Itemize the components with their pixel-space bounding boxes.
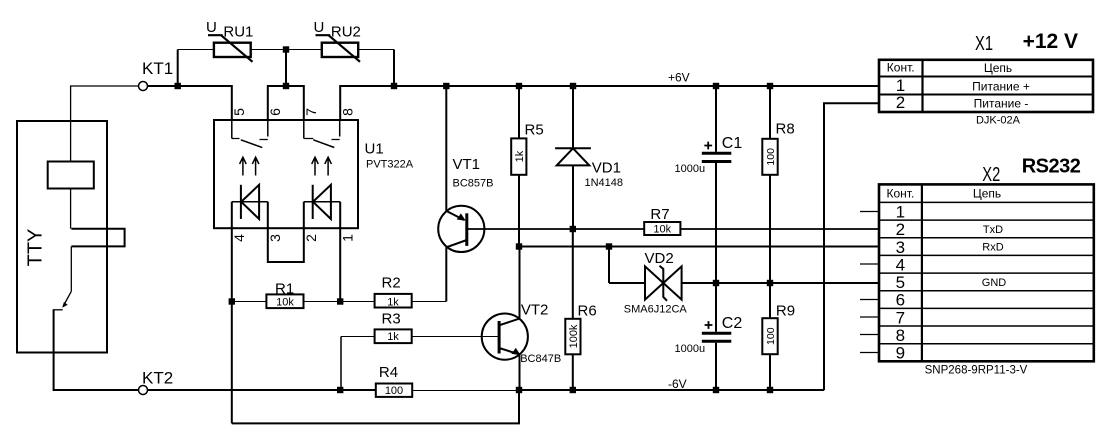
- svg-text:3: 3: [896, 238, 905, 257]
- node GND C1C2: [713, 280, 719, 286]
- svg-text:2: 2: [896, 220, 905, 239]
- svg-text:Цепь: Цепь: [984, 61, 1012, 75]
- wire X2 stub pin8: [860, 334, 879, 336]
- transistor VT2: [482, 314, 528, 360]
- svg-text:C1: C1: [722, 135, 743, 152]
- node rail R5: [516, 83, 522, 89]
- node R3 KT2 junction: [337, 387, 343, 393]
- svg-text:6: 6: [896, 291, 905, 310]
- node rail RU2: [391, 83, 397, 89]
- svg-text:8: 8: [339, 108, 355, 116]
- wire pin4 lead down: [231, 228, 233, 423]
- svg-text:1000u: 1000u: [675, 343, 706, 355]
- svg-text:5: 5: [231, 108, 247, 116]
- svg-text:X2: X2: [982, 164, 1000, 186]
- node rail R8: [767, 83, 773, 89]
- svg-text:R6: R6: [578, 303, 597, 320]
- wire RxD row: [519, 246, 879, 248]
- resistor R7: [644, 222, 680, 235]
- svg-text:100: 100: [385, 385, 403, 397]
- resistor R8: [769, 86, 771, 283]
- svg-text:VT1: VT1: [453, 156, 481, 173]
- svg-text:RS232: RS232: [1022, 155, 1081, 177]
- wire X2 stub pin6: [860, 299, 879, 301]
- svg-text:Питание +: Питание +: [972, 79, 1030, 93]
- svg-text:1: 1: [339, 234, 355, 242]
- svg-text:2: 2: [896, 93, 905, 112]
- resistor R2: [340, 301, 446, 303]
- wire mid junction down: [285, 50, 287, 87]
- wire VT1 base row: [467, 228, 644, 230]
- svg-text:KT1: KT1: [142, 59, 173, 78]
- svg-text:4: 4: [231, 234, 247, 242]
- svg-text:TxD: TxD: [983, 224, 1003, 236]
- svg-text:4: 4: [896, 256, 905, 275]
- svg-text:R8: R8: [776, 121, 795, 138]
- svg-text:PVT322A: PVT322A: [366, 158, 414, 170]
- svg-text:C2: C2: [722, 315, 743, 332]
- svg-text:SMA6J12CA: SMA6J12CA: [624, 304, 688, 316]
- U1 photoswitch channel 2: [304, 120, 340, 139]
- svg-text:VD2: VD2: [645, 250, 674, 267]
- svg-text:1k: 1k: [387, 297, 399, 309]
- svg-text:+6V: +6V: [668, 71, 690, 85]
- svg-text:Конт.: Конт.: [887, 186, 915, 200]
- svg-text:6: 6: [267, 108, 283, 116]
- wire RU2 right lead: [358, 49, 394, 51]
- svg-text:1N4148: 1N4148: [585, 177, 624, 189]
- wire +6V rail: [340, 86, 879, 120]
- TVS diode VD2: [608, 247, 610, 284]
- svg-text:2: 2: [303, 234, 319, 242]
- wire junction up to RU1: [177, 50, 179, 87]
- TTY switch fixed contact: [53, 309, 63, 311]
- svg-text:VT2: VT2: [521, 302, 549, 319]
- U1 LED arrows channel 1: [240, 157, 247, 175]
- wire pin1 lead down: [339, 228, 341, 301]
- svg-text:R2: R2: [382, 275, 401, 292]
- node bridge junction: [283, 83, 289, 89]
- svg-text:RU1: RU1: [223, 24, 253, 41]
- node -6V R9: [767, 387, 773, 393]
- U1 photoswitch channel 1: [232, 120, 268, 139]
- wire KT2 row: [148, 389, 376, 391]
- svg-text:-6V: -6V: [668, 377, 687, 391]
- node rail VD1: [570, 83, 576, 89]
- svg-text:X1: X1: [975, 33, 993, 55]
- svg-text:U: U: [206, 19, 217, 36]
- wire pins 3-2 loop: [268, 228, 304, 262]
- wire X2 stub pin7: [860, 316, 879, 318]
- svg-text:VD1: VD1: [592, 160, 621, 177]
- wire bottom loop: [232, 390, 519, 423]
- U1 LED channel 1: [232, 202, 268, 228]
- svg-text:Питание -: Питание -: [974, 97, 1029, 111]
- svg-text:5: 5: [896, 273, 905, 292]
- node -6V R6: [570, 387, 576, 393]
- svg-text:R5: R5: [525, 122, 544, 139]
- wire GND row: [682, 282, 879, 284]
- svg-text:TTY: TTY: [25, 229, 47, 267]
- wire TTY bottom to KT2: [54, 310, 139, 390]
- TTY coil: [48, 162, 94, 189]
- svg-text:+12 V: +12 V: [1023, 30, 1078, 53]
- wire X2 stub pin9: [860, 352, 879, 354]
- node RxD VT2 collector: [516, 243, 522, 249]
- optocoupler U1 box: [214, 120, 358, 228]
- resistor R4: [376, 384, 412, 397]
- svg-text:GND: GND: [982, 277, 1007, 289]
- svg-text:BC847B: BC847B: [520, 353, 561, 365]
- wire X2 stub pin4: [860, 263, 879, 265]
- svg-text:R9: R9: [776, 303, 795, 320]
- resistor R6: [572, 229, 574, 390]
- svg-text:R7: R7: [650, 206, 669, 223]
- wire RU2 down to rail: [393, 50, 395, 87]
- wire tab to switch: [70, 246, 72, 291]
- svg-text:100: 100: [765, 148, 777, 166]
- svg-text:100: 100: [765, 327, 777, 345]
- wire rail KT1 to pin5: [148, 86, 232, 120]
- terminal KT1: [139, 82, 148, 91]
- svg-text:1000u: 1000u: [675, 163, 706, 175]
- capacitor C1: [715, 86, 717, 283]
- wire KT1 to junction: [148, 85, 178, 87]
- node mid varistor junction: [283, 46, 289, 52]
- U1 LED channel 2: [304, 202, 340, 228]
- svg-text:9: 9: [896, 344, 905, 363]
- svg-text:7: 7: [896, 308, 905, 327]
- varistor RU1: [214, 43, 251, 57]
- svg-text:Конт.: Конт.: [887, 61, 915, 75]
- svg-text:RxD: RxD: [982, 242, 1003, 254]
- wire X2 stub pin1: [860, 211, 879, 213]
- svg-text:R4: R4: [379, 364, 398, 381]
- node GND R8R9: [767, 280, 773, 286]
- node RxD VD2: [606, 243, 612, 249]
- svg-text:SNP268-9RP11-3-V: SNP268-9RP11-3-V: [925, 364, 1028, 376]
- terminal KT2: [139, 386, 148, 395]
- svg-text:1k: 1k: [514, 150, 526, 162]
- wire coil to tab: [70, 189, 72, 229]
- wire R2 to VT1 collector: [445, 247, 447, 301]
- node KT1 junction: [175, 83, 181, 89]
- svg-text:1k: 1k: [387, 331, 399, 343]
- node base row VD1/R6: [570, 226, 576, 232]
- svg-text:Цепь: Цепь: [973, 187, 1001, 201]
- node rail VT1 emitter: [443, 83, 449, 89]
- node pin4 R1: [229, 298, 235, 304]
- resistor R9: [769, 283, 771, 390]
- svg-text:BC857B: BC857B: [453, 178, 494, 190]
- node -6V VT2 emitter: [516, 387, 522, 393]
- svg-text:KT2: KT2: [142, 369, 173, 388]
- wire power minus: [824, 103, 879, 390]
- TTY switch blade: [63, 291, 71, 306]
- wire TxD row: [680, 228, 879, 230]
- svg-text:3: 3: [267, 234, 283, 242]
- node pin1 R1: [337, 298, 343, 304]
- wire RU1 left lead: [178, 49, 214, 51]
- wire bridge pins 6-7: [268, 86, 304, 120]
- svg-text:U1: U1: [365, 141, 384, 158]
- wire RU1-RU2 mid lead: [251, 49, 322, 51]
- svg-text:10k: 10k: [276, 297, 294, 309]
- U1 LED arrows channel 2: [312, 157, 319, 175]
- TTY device box: [17, 121, 107, 353]
- diode VD1: [572, 86, 574, 229]
- TTY tab: [71, 229, 124, 247]
- resistor R5: [518, 86, 520, 247]
- wire R3 down to KT2 row: [340, 337, 342, 391]
- capacitor C2: [715, 283, 717, 390]
- resistor R1: [232, 301, 340, 303]
- svg-text:RU2: RU2: [331, 24, 361, 41]
- svg-text:100k: 100k: [568, 324, 580, 348]
- node rail C1: [713, 83, 719, 89]
- node -6V C2: [713, 387, 719, 393]
- svg-text:8: 8: [896, 326, 905, 345]
- svg-text:R3: R3: [382, 311, 401, 328]
- resistor R3: [341, 336, 499, 338]
- transistor VT1: [438, 206, 484, 252]
- svg-text:1: 1: [896, 76, 905, 95]
- wire TTY top to KT1: [71, 86, 139, 162]
- wire -6V rail: [519, 389, 824, 391]
- svg-text:R1: R1: [275, 281, 294, 298]
- svg-text:1: 1: [896, 203, 905, 222]
- svg-text:7: 7: [303, 108, 319, 116]
- varistor RU2: [322, 43, 358, 57]
- svg-text:U: U: [314, 19, 325, 36]
- svg-text:10k: 10k: [653, 223, 671, 235]
- svg-text:DJK-02A: DJK-02A: [976, 115, 1021, 127]
